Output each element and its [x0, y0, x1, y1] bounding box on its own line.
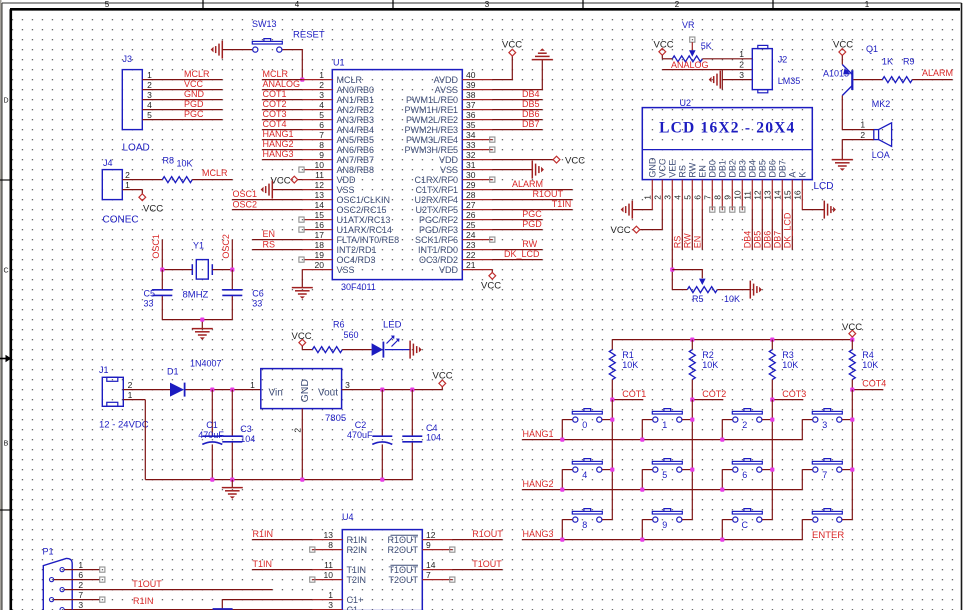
wire net DK_LCD at U1 pin 22: [492, 249, 542, 259]
svg-text:37: 37: [466, 100, 476, 110]
svg-text:4: 4: [147, 100, 152, 110]
svg-text:4: 4: [295, 0, 300, 9]
svg-text:A: A: [788, 172, 798, 178]
svg-text:RS: RS: [678, 165, 688, 178]
svg-text:R1: R1: [622, 350, 634, 360]
junction HANG3: [640, 538, 644, 542]
power ground below speaker: [832, 160, 853, 171]
svg-text:R1OUT: R1OUT: [387, 535, 418, 545]
transistor Q1 A1013: [823, 44, 878, 96]
capacitor C2 470uF: [347, 390, 392, 480]
svg-text:VSS: VSS: [337, 185, 355, 195]
wire button terminals: [642, 519, 692, 521]
svg-text:4: 4: [582, 470, 587, 480]
wire C5 column: [161, 270, 163, 320]
U1 left pin stubs: [302, 80, 332, 270]
svg-text:3: 3: [822, 420, 827, 430]
svg-text:470uF: 470uF: [198, 430, 224, 440]
svg-text:COT2: COT2: [263, 99, 287, 109]
svg-text:13: 13: [315, 190, 325, 200]
svg-text:U2TX/RF5: U2TX/RF5: [415, 205, 458, 215]
svg-text:RW: RW: [522, 239, 537, 249]
wire net MCLR to U1 pin 1: [262, 69, 302, 80]
svg-text:DB1: DB1: [718, 160, 728, 178]
junction C3 bottom: [230, 478, 234, 482]
no-connect marker U1 pin 33: [490, 147, 495, 152]
svg-text:5: 5: [319, 110, 324, 120]
wire net COT2 stub: [692, 380, 726, 400]
svg-text:22: 22: [466, 250, 476, 260]
svg-text:AN1/RB1: AN1/RB1: [337, 95, 375, 105]
junction HANG2: [640, 488, 644, 492]
no-connect marker above VR: [690, 37, 695, 42]
svg-text:3: 3: [319, 90, 324, 100]
wire U3 Vout to VCC: [342, 389, 443, 391]
svg-text:13: 13: [324, 530, 334, 540]
wire button terminals: [562, 469, 612, 471]
wire net ALARM at U1 pin 29: [492, 179, 572, 189]
svg-text:T1IN: T1IN: [552, 199, 572, 209]
power ground at J2 pin 3: [709, 71, 721, 89]
wire net HANG2: [522, 479, 802, 490]
svg-text:D1: D1: [167, 367, 179, 377]
no-connect marker U4 pin 9: [450, 547, 455, 552]
J3 pin 5 wire, net PGC: [142, 109, 222, 120]
svg-text:GND: GND: [299, 379, 311, 403]
wire button terminals: [642, 469, 692, 471]
svg-text:14: 14: [315, 200, 325, 210]
svg-text:1: 1: [250, 380, 255, 390]
svg-text:VCC: VCC: [565, 155, 585, 166]
svg-text:C3: C3: [240, 424, 252, 434]
svg-text:2: 2: [653, 195, 663, 200]
svg-text:40: 40: [466, 70, 476, 80]
svg-text:PGD: PGD: [522, 219, 542, 229]
LED indicator: [372, 320, 410, 358]
svg-text:7805: 7805: [325, 413, 346, 424]
P1 pin 1 wire: [64, 567, 104, 572]
svg-text:1: 1: [328, 590, 333, 600]
wire U3 GND pin 2: [301, 409, 303, 480]
svg-text:DB7: DB7: [778, 160, 788, 178]
P1 pin 7 wire: [54, 597, 105, 602]
svg-text:VCC: VCC: [502, 40, 522, 51]
P1 pin 6 wire: [54, 577, 105, 582]
svg-text:U4: U4: [342, 512, 354, 522]
svg-text:B: B: [4, 441, 9, 448]
svg-text:5: 5: [105, 0, 110, 9]
svg-text:3: 3: [663, 195, 673, 200]
junction HANG2: [720, 488, 724, 492]
wire COT4 column: [851, 390, 853, 520]
U4 pin names and numbers: [324, 530, 436, 615]
svg-text:VDD: VDD: [439, 265, 459, 275]
no-connect marker U1 pin 24: [490, 237, 495, 242]
connector J4: [102, 158, 138, 226]
junction VEE-R5 wiper: [670, 268, 674, 272]
junction button column: [610, 418, 614, 422]
wire net DB7 at U2 pin 14: [773, 210, 783, 250]
power ground at LED: [410, 341, 422, 359]
svg-text:ANALOG: ANALOG: [671, 60, 709, 70]
svg-text:J3: J3: [123, 54, 133, 64]
svg-text:COT3: COT3: [782, 389, 806, 399]
no-connect marker U4 pin 10: [310, 577, 315, 582]
svg-text:RW: RW: [683, 233, 693, 248]
svg-text:2: 2: [739, 59, 744, 69]
wire net DB7 at U1 pin 35: [492, 119, 542, 129]
wire net OSC1 to U1 pin 13: [232, 189, 302, 199]
wire button terminals: [642, 419, 692, 421]
svg-text:DB5: DB5: [522, 99, 540, 109]
svg-text:33: 33: [252, 299, 262, 309]
wire net OSC1 vertical at crystal: [151, 234, 162, 270]
svg-text:1K: 1K: [882, 57, 893, 67]
microcontroller U1 30F4011 body: [332, 58, 462, 293]
wire D1 to U3 Vin: [186, 389, 261, 391]
wire crystal ground bus: [162, 320, 232, 329]
svg-text:2: 2: [128, 380, 133, 390]
svg-text:INT1/RD0: INT1/RD0: [418, 245, 458, 255]
U2 pin stubs: [652, 180, 802, 210]
wire button terminals: [562, 519, 612, 521]
wire keypad VCC bus: [612, 339, 852, 341]
svg-text:LED: LED: [383, 320, 402, 331]
svg-text:8: 8: [582, 520, 587, 530]
svg-text:1: 1: [78, 560, 83, 570]
wire net OSC2 to U1 pin 14: [232, 200, 302, 210]
sheet edge arrow marker: [0, 355, 11, 362]
svg-text:LCD 16X2 - 20X4: LCD 16X2 - 20X4: [659, 119, 795, 136]
svg-text:AN5/RB5: AN5/RB5: [337, 135, 375, 145]
svg-text:OSC2: OSC2: [221, 234, 231, 259]
no-connect marker U2 pin 7: [710, 207, 715, 212]
svg-text:6: 6: [693, 195, 703, 200]
junction COT2: [690, 398, 694, 402]
wire SW13 left: [222, 49, 252, 51]
pushbutton key 5: [652, 459, 682, 481]
svg-text:DK_LCD: DK_LCD: [783, 212, 793, 248]
svg-text:HANG1: HANG1: [523, 429, 554, 439]
wire net COT1 to U1 pin 3: [262, 89, 302, 100]
svg-text:10K: 10K: [177, 159, 193, 169]
U1 pin numbers 21-40: [466, 70, 476, 270]
svg-text:U1: U1: [333, 58, 345, 68]
svg-text:1N4007: 1N4007: [190, 359, 222, 369]
svg-text:PWM2L/RE2: PWM2L/RE2: [406, 115, 458, 125]
svg-text:PGD: PGD: [184, 99, 204, 109]
svg-text:VCC: VCC: [842, 322, 862, 333]
svg-text:27: 27: [466, 200, 476, 210]
svg-text:C4: C4: [426, 423, 438, 433]
svg-text:12 - 24VDC: 12 - 24VDC: [99, 420, 149, 431]
svg-text:COT2: COT2: [702, 389, 726, 399]
svg-text:PGC: PGC: [522, 209, 542, 219]
svg-text:K: K: [798, 172, 808, 178]
svg-text:0: 0: [582, 420, 587, 430]
svg-text:34: 34: [466, 130, 476, 140]
svg-text:16: 16: [315, 220, 325, 230]
svg-text:DB6: DB6: [768, 160, 778, 178]
svg-text:J1: J1: [99, 365, 109, 375]
svg-text:21: 21: [466, 260, 476, 270]
svg-text:26: 26: [466, 210, 476, 220]
wire U1 pin 12 VSS to ground: [272, 189, 302, 191]
svg-text:P1: P1: [43, 547, 54, 557]
svg-text:10K: 10K: [622, 360, 638, 370]
svg-text:R4: R4: [862, 350, 874, 360]
wire button drop to row net: [641, 520, 643, 540]
svg-text:38: 38: [466, 90, 476, 100]
wire net DB5 at U1 pin 37: [492, 99, 542, 109]
svg-text:10: 10: [315, 160, 325, 170]
wire ground stem: [231, 480, 233, 488]
svg-text:3: 3: [147, 90, 152, 100]
junction R2 top: [690, 338, 694, 342]
svg-text:2: 2: [78, 580, 83, 590]
wire net PGD at U1 pin 25: [492, 219, 542, 230]
junction MCLR node: [300, 78, 304, 82]
svg-text:RS: RS: [263, 240, 276, 250]
svg-text:OSC2: OSC2: [233, 200, 258, 210]
wire net DB6 at U2 pin 13: [763, 210, 773, 250]
svg-text:5: 5: [147, 110, 152, 120]
svg-text:R1IN: R1IN: [133, 596, 154, 606]
svg-text:VCC: VCC: [658, 158, 668, 178]
svg-text:U2: U2: [680, 98, 692, 108]
junction C3 top: [230, 388, 234, 392]
power port VCC at U1 pin 32: [553, 156, 560, 163]
svg-text:T1OUT: T1OUT: [132, 579, 162, 589]
svg-text:MCLR: MCLR: [184, 69, 210, 79]
power ground at R5: [750, 281, 762, 299]
svg-text:33: 33: [466, 140, 476, 150]
wire J1 pin 2 to D1: [123, 389, 170, 391]
svg-text:VCC: VCC: [611, 225, 631, 236]
junction button column: [770, 418, 774, 422]
svg-text:2: 2: [860, 130, 865, 140]
wire net RS to U1 pin 18: [252, 240, 302, 250]
svg-text:3: 3: [328, 600, 333, 610]
svg-text:6: 6: [742, 470, 747, 480]
svg-text:C1TX/RF1: C1TX/RF1: [415, 185, 458, 195]
svg-text:8: 8: [328, 540, 333, 550]
svg-text:ENTER: ENTER: [812, 530, 844, 541]
wire button drop to row net: [561, 520, 563, 540]
svg-text:OSC2/RC15: OSC2/RC15: [337, 205, 387, 215]
svg-text:T1IN: T1IN: [347, 565, 367, 575]
svg-text:1: 1: [128, 390, 133, 400]
svg-text:ALARM: ALARM: [512, 179, 543, 189]
pushbutton key ENTER: [812, 509, 842, 523]
svg-text:4: 4: [673, 195, 683, 200]
svg-text:1: 1: [319, 70, 324, 80]
svg-text:ANALOG: ANALOG: [263, 79, 301, 89]
svg-text:3: 3: [78, 600, 83, 610]
junction COT3: [770, 398, 774, 402]
power port VCC at keypad: [842, 322, 862, 340]
svg-text:C: C: [742, 520, 749, 530]
svg-text:CONEC: CONEC: [103, 215, 139, 226]
wire supply ground bus: [145, 479, 412, 481]
J4 pin 1 wire: [122, 180, 142, 194]
svg-text:17: 17: [315, 230, 325, 240]
svg-text:DB2: DB2: [728, 160, 738, 178]
svg-text:R2OUT: R2OUT: [387, 545, 418, 555]
svg-text:23: 23: [466, 240, 476, 250]
wire VR to J2 pin 1: [702, 58, 752, 60]
svg-text:19: 19: [315, 250, 325, 260]
no-connect marker U4 pin 8: [310, 547, 315, 552]
ruler zone numbers: [3, 0, 869, 448]
wire VEE to R5 left: [672, 289, 687, 291]
svg-text:AVSS: AVSS: [435, 85, 458, 95]
crystal Y1 8MHZ: [183, 241, 213, 301]
capacitor C1 470uF: [198, 390, 224, 480]
power port VCC at Q1: [833, 40, 853, 65]
resistor R8 10K: [162, 156, 192, 183]
svg-text:LM35: LM35: [778, 76, 801, 86]
svg-text:DK_LCD: DK_LCD: [504, 249, 540, 259]
wire net T1OUT at U4 pin 14: [452, 559, 502, 570]
junction button column: [690, 468, 694, 472]
wire net DB6 at U1 pin 36: [492, 109, 542, 119]
capacitor C4 104: [402, 390, 441, 480]
power ground at U2 pin 16: [824, 201, 836, 219]
junction HANG2: [560, 488, 564, 492]
svg-text:AN0/RB0: AN0/RB0: [337, 85, 375, 95]
wire net COT1 stub: [612, 380, 646, 400]
wire net T1OUT at P1 pin 2: [64, 579, 272, 590]
svg-text:COT4: COT4: [862, 378, 886, 388]
svg-text:AN6/RB6: AN6/RB6: [337, 145, 375, 155]
svg-text:9: 9: [662, 520, 667, 530]
svg-text:R1IN: R1IN: [347, 535, 368, 545]
wire net RW at U2 pin 5: [683, 210, 693, 250]
pushbutton key C: [732, 509, 762, 531]
svg-text:VCC: VCC: [184, 79, 204, 89]
junction HANG1: [640, 438, 644, 442]
pushbutton key 9: [652, 509, 682, 531]
power port VCC at R6: [292, 331, 312, 350]
svg-text:2: 2: [319, 80, 324, 90]
wire J1 pin 1 to ground bus: [123, 400, 145, 480]
power ground at U1 pin 20: [292, 288, 313, 299]
no-connect marker U2 pin 8: [720, 207, 725, 212]
svg-text:6: 6: [319, 120, 324, 130]
svg-text:PGC/RF2: PGC/RF2: [419, 215, 458, 225]
svg-text:J4: J4: [103, 158, 113, 168]
svg-text:1: 1: [125, 180, 130, 190]
no-connect marker U2 pin 9: [730, 207, 735, 212]
svg-text:11: 11: [324, 560, 333, 570]
wire net DB4 at U2 pin 11: [743, 210, 753, 250]
svg-text:COT1: COT1: [622, 389, 646, 399]
svg-text:VCC: VCC: [654, 40, 674, 51]
wire net DK_LCD at U2 pin 15: [783, 210, 793, 250]
wire U4 pin 3 row: [72, 609, 312, 611]
svg-text:PWM3H/RE5: PWM3H/RE5: [404, 145, 458, 155]
svg-text:1: 1: [147, 70, 152, 80]
svg-text:5: 5: [662, 470, 667, 480]
junction R3 top: [770, 338, 774, 342]
svg-text:3: 3: [345, 380, 350, 390]
svg-text:2: 2: [147, 80, 152, 90]
junction button column: [850, 418, 854, 422]
svg-text:39: 39: [466, 80, 476, 90]
connector J2 LM35: [739, 45, 800, 92]
wire U1 pin 31 VSS to ground: [492, 169, 532, 171]
wire net ANALOG to U1 pin 2: [262, 79, 302, 90]
svg-text:OSC1/CLKIN: OSC1/CLKIN: [337, 195, 391, 205]
svg-text:11: 11: [743, 191, 753, 200]
U4 right pin stubs: [422, 540, 452, 580]
svg-text:R2: R2: [702, 350, 714, 360]
junction C1 bottom: [210, 478, 214, 482]
svg-text:LOA: LOA: [872, 150, 890, 160]
svg-text:HANG1: HANG1: [263, 129, 294, 139]
svg-text:R8: R8: [163, 156, 175, 166]
power port VCC at U1 pin 21: [489, 272, 496, 279]
junction C4 top: [410, 388, 414, 392]
svg-text:OC3/RD2: OC3/RD2: [419, 255, 458, 265]
J3 pin 4 wire, net PGD: [142, 99, 222, 110]
svg-text:1: 1: [662, 420, 667, 430]
U4 left pin stubs: [312, 540, 342, 610]
svg-text:T1OUT: T1OUT: [388, 565, 418, 575]
wire button drop to row net: [641, 470, 643, 490]
wire net RS at U2 pin 4: [673, 210, 683, 250]
svg-text:24: 24: [466, 230, 476, 240]
svg-text:5: 5: [683, 195, 693, 200]
svg-text:C: C: [3, 268, 8, 275]
power ground at U2 pin 1: [621, 201, 633, 219]
junction at OSC2-C6: [230, 268, 234, 272]
pushbutton key 6: [732, 459, 762, 481]
svg-text:VCC: VCC: [433, 370, 453, 381]
svg-text:VSS: VSS: [337, 265, 355, 275]
pushbutton key 3: [812, 409, 842, 431]
svg-text:30F4011: 30F4011: [341, 282, 376, 292]
svg-text:Y1: Y1: [193, 241, 204, 251]
svg-text:PWM3L/RE4: PWM3L/RE4: [406, 135, 458, 145]
svg-text:29: 29: [466, 180, 476, 190]
wire U2 pin 16 K to ground: [802, 209, 824, 211]
speaker MK2 LOA: [860, 99, 891, 160]
capacitor C3 104: [222, 390, 255, 480]
wire Q1 base to R9: [853, 79, 882, 81]
svg-text:MCLR: MCLR: [263, 69, 289, 79]
svg-text:RW: RW: [688, 162, 698, 177]
wire speaker pin 2 to ground: [842, 140, 874, 160]
svg-text:SCK1/RF6: SCK1/RF6: [415, 235, 458, 245]
svg-text:J2: J2: [778, 55, 788, 65]
wire net R1IN at P1 pin 3: [64, 596, 153, 610]
no-connect marker U4 pin 7: [450, 577, 455, 582]
U1 pin names: [337, 75, 459, 275]
svg-text:DB6: DB6: [763, 231, 773, 249]
J3 pin 2 wire, net VCC: [142, 79, 222, 90]
svg-text:DB0: DB0: [708, 160, 718, 178]
svg-text:R1OUT: R1OUT: [472, 529, 503, 539]
power port VCC at U2 pin 2: [633, 226, 640, 233]
resistor R3 10K: [769, 340, 798, 380]
junction HANG3: [720, 538, 724, 542]
wire SW13 to MCLR node: [283, 50, 303, 80]
svg-text:EN: EN: [698, 165, 708, 178]
svg-text:18: 18: [315, 240, 325, 250]
svg-text:PWM1L/RE0: PWM1L/RE0: [406, 95, 458, 105]
